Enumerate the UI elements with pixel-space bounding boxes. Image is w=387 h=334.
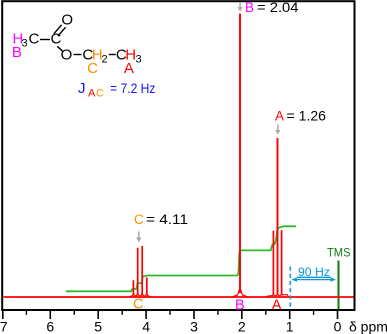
- singlet B foot: [232, 290, 249, 297]
- quartet C feet: [129, 293, 151, 297]
- red spectrum baseline: [4, 296, 354, 298]
- svg-text:7: 7: [0, 319, 8, 334]
- svg-text:= 2.04: = 2.04: [257, 0, 299, 15]
- svg-text:A: A: [275, 109, 284, 124]
- triplet A line 2 (center): [277, 138, 279, 294]
- svg-text:= 1.26: = 1.26: [287, 109, 327, 124]
- axis major ticks: [3, 310, 338, 319]
- axis tick labels: [0, 319, 342, 334]
- triplet A line 1: [272, 231, 274, 294]
- bond C-O ester: [57, 46, 63, 51]
- svg-text:5: 5: [94, 319, 102, 334]
- svg-text:A: A: [272, 298, 282, 314]
- quartet C line 4: [146, 278, 148, 295]
- quartet C line 1: [132, 280, 134, 294]
- svg-text:= 7.2 Hz: = 7.2 Hz: [110, 81, 156, 96]
- svg-text:C: C: [50, 31, 61, 48]
- bond CH2-CH3: [109, 54, 116, 56]
- dashed 1 ppm reference line: [289, 267, 291, 309]
- triplet A feet: [266, 293, 290, 297]
- svg-text:C: C: [28, 31, 39, 48]
- triplet A line 3: [281, 230, 283, 293]
- gray arrow at B peak: [237, 2, 242, 12]
- svg-text:A: A: [88, 88, 96, 100]
- gray arrow at C peak: [136, 232, 141, 243]
- svg-text:3: 3: [136, 54, 142, 66]
- quartet C line 2: [137, 248, 139, 294]
- svg-text:= 4.11: = 4.11: [146, 212, 188, 227]
- svg-text:2: 2: [102, 54, 108, 66]
- svg-text:O: O: [61, 47, 73, 64]
- svg-text:1: 1: [286, 319, 294, 334]
- svg-text:2: 2: [238, 319, 246, 334]
- singlet B peak line: [239, 14, 241, 294]
- gray arrow at A peak: [275, 125, 280, 135]
- svg-text:C: C: [96, 88, 104, 100]
- svg-text:O: O: [61, 12, 73, 29]
- green integral trace: [66, 226, 296, 291]
- svg-text:0: 0: [334, 319, 342, 334]
- bond O-CH2: [74, 54, 82, 56]
- svg-text:C: C: [133, 297, 143, 313]
- svg-text:6: 6: [46, 319, 54, 334]
- svg-text:4: 4: [142, 319, 150, 334]
- svg-text:J: J: [78, 80, 86, 97]
- svg-text:B: B: [245, 0, 254, 15]
- svg-text:3: 3: [22, 38, 28, 50]
- C=O double bond: [54, 25, 66, 36]
- axis minor ticks: [26, 310, 313, 315]
- bond H3C-C: [40, 39, 50, 41]
- svg-text:B: B: [235, 298, 245, 314]
- svg-text:C: C: [134, 212, 144, 227]
- svg-text:δ ppm: δ ppm: [349, 319, 387, 334]
- svg-text:TMS: TMS: [327, 246, 351, 260]
- TMS reference peak at 0 ppm: [338, 261, 340, 310]
- svg-text:B: B: [12, 44, 22, 61]
- svg-text:3: 3: [190, 319, 198, 334]
- svg-text:C: C: [87, 60, 98, 77]
- svg-text:A: A: [124, 60, 134, 77]
- 90 Hz double arrow: [292, 277, 337, 281]
- quartet C line 3: [141, 246, 143, 294]
